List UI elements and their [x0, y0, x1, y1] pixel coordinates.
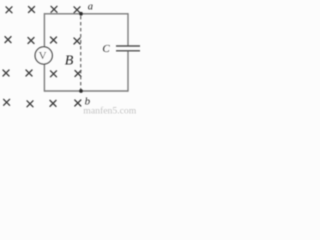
B-field cross row2 col1	[5, 37, 11, 43]
wire top (loop top side)	[44, 13, 128, 15]
node a (junction dot)	[79, 12, 83, 16]
field label B	[65, 53, 74, 68]
wire right upper segment	[127, 13, 129, 46]
B-field cross row2 col4	[74, 38, 80, 44]
B-field cross row1 col3	[51, 6, 57, 12]
B-field cross row1 col1	[6, 7, 12, 13]
B-field cross row3 col1	[3, 70, 9, 76]
B-field cross row3 col3	[51, 71, 57, 77]
capacitor value label C	[102, 43, 110, 55]
B-field cross row3 col2	[26, 70, 32, 76]
B-field cross row4 col2	[27, 101, 33, 107]
B-field cross row2 col3	[51, 37, 57, 43]
wire right lower segment	[127, 51, 129, 92]
capacitor C top plate	[116, 45, 140, 47]
svg-text:a: a	[88, 2, 93, 13]
node label b	[85, 96, 91, 108]
node label a	[88, 2, 93, 13]
svg-text:B: B	[65, 53, 74, 68]
wire left upper segment	[43, 13, 45, 47]
voltmeter letter V	[39, 50, 47, 62]
svg-text:V: V	[39, 50, 47, 62]
node b (junction dot)	[79, 89, 83, 93]
B-field cross row2 col2	[28, 38, 34, 44]
B-field cross row3 col4	[75, 71, 81, 77]
boundary dashed line a-b	[80, 16, 82, 90]
B-field cross row4 col4	[75, 100, 81, 106]
wire left lower segment	[43, 64, 45, 91]
B-field cross row1 col4	[74, 7, 80, 13]
capacitor C bottom plate	[116, 50, 140, 52]
svg-text:manfen5.com: manfen5.com	[83, 105, 136, 116]
B-field cross row4 col3	[50, 100, 56, 106]
wire bottom (loop bottom side)	[44, 90, 128, 92]
voltmeter V (circle body)	[35, 47, 52, 64]
B-field cross row4 col1	[4, 99, 10, 105]
watermark manfen5.com	[83, 105, 136, 116]
B-field cross row1 col2	[29, 7, 35, 13]
svg-text:C: C	[102, 43, 110, 55]
